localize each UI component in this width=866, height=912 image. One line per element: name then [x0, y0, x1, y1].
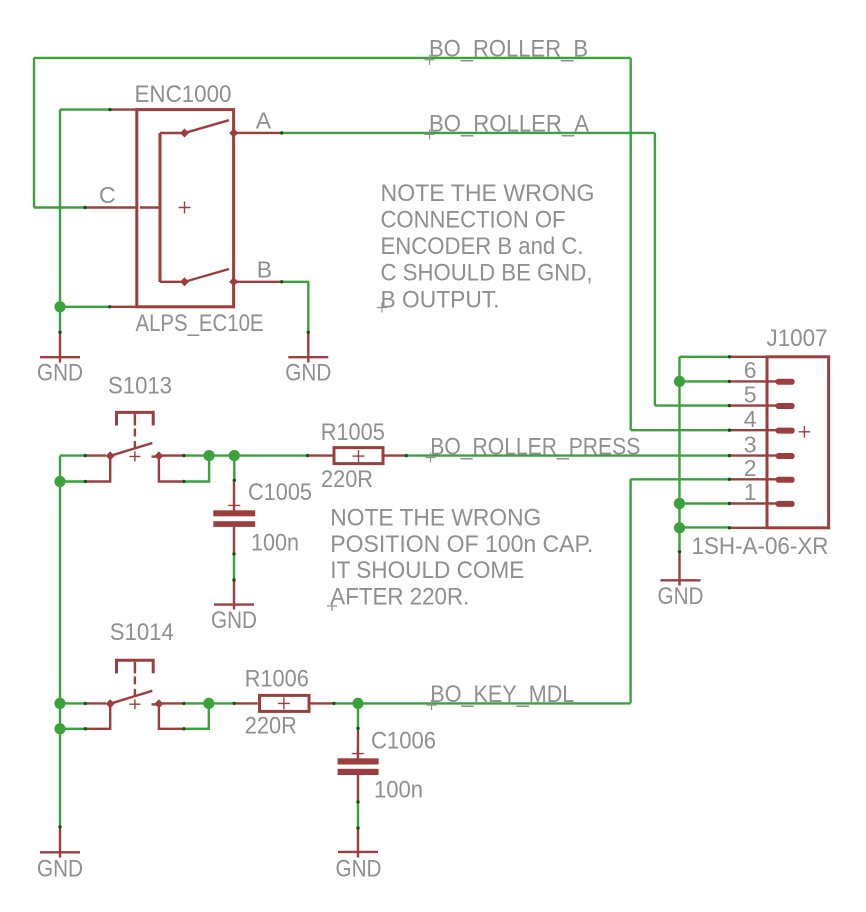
svg-text:1SH-A-06-XR: 1SH-A-06-XR [692, 533, 829, 560]
wire S1014 right to R1006 [184, 702, 234, 704]
svg-text:BO_ROLLER_A: BO_ROLLER_A [429, 110, 589, 137]
S1013 pin 3 (right) [161, 454, 184, 456]
J1007 pin 4 line [729, 429, 777, 431]
svg-text:BO_KEY_MDL: BO_KEY_MDL [430, 681, 574, 708]
svg-text:B: B [257, 257, 272, 283]
svg-text:2: 2 [744, 455, 757, 481]
svg-text:BO_ROLLER_PRESS: BO_ROLLER_PRESS [430, 434, 640, 461]
encoder pin A [234, 132, 282, 134]
GND1 bar [40, 356, 80, 358]
GND2 pin line [307, 332, 309, 362]
J1007 bottom mount pin line [729, 527, 767, 529]
net label BO_ROLLER_PRESS [426, 434, 641, 463]
J1007 top mount pin line [729, 356, 767, 358]
switch S1014 [85, 619, 184, 729]
wire encoder bottom pin [60, 306, 110, 308]
S1013 pin 1 (left) [85, 454, 106, 456]
svg-text:220R: 220R [245, 713, 297, 740]
wire S1014 lower left [60, 728, 85, 730]
wire left rail to S1013 [60, 454, 85, 456]
wire GND to pin 1 [680, 502, 730, 504]
net BO_ROLLER_A wires [282, 133, 730, 406]
R1006 origin cross [278, 697, 290, 709]
svg-text:100n: 100n [251, 529, 299, 556]
svg-text:NOTE THE WRONG: NOTE THE WRONG [381, 180, 595, 207]
S1013 left contact dot [106, 451, 115, 460]
encoder switch A wiper diagonal [184, 120, 230, 133]
net label BO_ROLLER_A [425, 110, 589, 139]
ground GND2 [285, 332, 331, 386]
junction S1014 output [203, 698, 214, 709]
GND3 bar [214, 603, 254, 605]
J1007 pin 5 line [729, 404, 777, 406]
S1013 right contact [154, 451, 163, 460]
wire GND to bottom mount pin [680, 526, 730, 528]
junction GND pin 6 [674, 376, 685, 387]
wire BO_ROLLER_B left vertical to encoder C [33, 58, 35, 208]
junction encoder GND node [54, 301, 65, 312]
J1007 pin 1 line [729, 502, 777, 504]
wire BO_ROLLER_B to J1007 pin 4 [631, 429, 730, 431]
svg-text:AFTER 220R.: AFTER 220R. [330, 584, 469, 611]
wire C1006 top [357, 703, 359, 728]
svg-text:A: A [256, 108, 272, 134]
wire S1013 lower left [60, 480, 85, 482]
svg-text:100n: 100n [374, 777, 423, 804]
J1007 pad 6 [776, 379, 795, 385]
wire GND to pin 6 [680, 380, 730, 382]
J1007 pad 4 [776, 428, 795, 434]
J1007 pad 2 [776, 477, 795, 483]
wire BO_KEY_MDL horizontal [358, 702, 631, 704]
GND4 bar [661, 579, 701, 581]
net BO_KEY_MDL wires [334, 479, 730, 703]
svg-text:GND: GND [211, 607, 257, 634]
svg-text:6: 6 [744, 357, 757, 383]
svg-text:GND: GND [285, 359, 331, 386]
S1014 origin cross [129, 699, 140, 709]
svg-text:GND: GND [37, 359, 83, 386]
encoder switch B wiper diagonal [184, 269, 230, 282]
C1006 bottom pin [357, 775, 359, 802]
junction left rail S1014 row [54, 698, 65, 709]
svg-text:POSITION OF 100n CAP.: POSITION OF 100n CAP. [330, 531, 593, 558]
svg-text:ENCODER B and C.: ENCODER B and C. [381, 233, 584, 260]
svg-text:S1013: S1013 [108, 373, 172, 400]
encoder switch A arm line [160, 132, 185, 134]
switch S1013 [85, 373, 184, 482]
wire BO_ROLLER_A vertical [654, 133, 656, 406]
encoder switch B arm line [160, 281, 185, 283]
wire S1013 right to R1005 [184, 454, 308, 456]
svg-text:ALPS_EC10E: ALPS_EC10E [136, 310, 264, 337]
net label BO_KEY_MDL [427, 681, 575, 710]
encoder switch B right contact dot [229, 277, 238, 286]
GND5 bar [40, 851, 80, 853]
junction GND pin 1 [674, 498, 685, 509]
S1013 actuator dashed line [134, 429, 136, 451]
junction S1013 lower left [54, 476, 65, 487]
encoder pin B [234, 281, 282, 283]
svg-text:GND: GND [336, 855, 382, 882]
resistor R1006 [234, 666, 334, 740]
encoder inner common line [159, 133, 162, 282]
encoder ENC1000 [85, 81, 282, 337]
S1014 bracket stem [134, 662, 136, 674]
junction left rail S1014 lower [54, 723, 65, 734]
J1007 pin 3 line [729, 454, 777, 456]
encoder switch A contact dot [180, 129, 189, 138]
svg-text:C: C [99, 182, 116, 208]
net GND of J1007 [680, 357, 730, 552]
note text block 2 [327, 505, 593, 611]
net label BO_ROLLER_B [425, 35, 588, 64]
S1013 bracket stem [134, 414, 136, 426]
R1006 right pin [310, 702, 334, 704]
R1005 body [334, 448, 383, 464]
svg-text:C1006: C1006 [371, 727, 436, 754]
S1013 pin 4 (right lower) [159, 458, 184, 482]
S1014 left contact dot [106, 699, 115, 708]
S1014 right contact stub [152, 703, 159, 705]
wire BO_KEY_MDL to J1007 pin 2 [631, 478, 730, 480]
C1005 bottom plate [213, 521, 255, 527]
wire from encoder pin A [282, 132, 655, 134]
J1007 pin 2 line [729, 478, 777, 480]
wire GND to top mount pin [680, 356, 730, 358]
svg-text:NOTE THE WRONG: NOTE THE WRONG [330, 505, 541, 532]
ground GND4 [658, 552, 704, 610]
J1007 pad 5 [776, 403, 795, 409]
C1006 top pin [357, 728, 359, 758]
J1007 pad 1 [776, 501, 795, 507]
C1005 origin cross [228, 500, 240, 512]
svg-text:ENC1000: ENC1000 [135, 81, 232, 108]
GND4 pin line [678, 552, 680, 586]
wire encoder top pin to left rail [60, 108, 110, 110]
C1005 bottom pin [233, 527, 235, 554]
encoder switch B contact dot [180, 277, 189, 286]
S1013 pin 2 (left lower) [85, 458, 110, 482]
junction GND bottom mount [674, 522, 685, 533]
S1013 origin cross [129, 451, 140, 461]
wire BO_ROLLER_B top horizontal [34, 57, 631, 59]
encoder switch A right contact dot [229, 129, 238, 138]
S1014 pin 4 (right lower) [159, 706, 184, 729]
wire R1006 to C1006 tap [334, 702, 358, 704]
svg-text:R1006: R1006 [245, 666, 309, 693]
wire BO_ROLLER_A to J1007 pin 5 [655, 404, 730, 406]
R1005 origin cross [353, 450, 365, 462]
wire left rail vertical encoder [59, 110, 61, 333]
C1005 top plate [213, 510, 255, 516]
J1007 box outline [767, 357, 829, 528]
junction S1013 output a [204, 450, 215, 461]
svg-text:GND: GND [37, 855, 83, 882]
encoder box outline [137, 110, 234, 307]
capacitor C1006 [338, 727, 436, 803]
svg-text:5: 5 [744, 381, 757, 407]
J1007 pad 3 [776, 453, 795, 459]
ground GND3 [211, 580, 257, 634]
encoder top pin [110, 108, 137, 110]
C1006 origin cross [352, 748, 364, 760]
S1014 right contact [154, 699, 163, 708]
svg-text:1: 1 [744, 479, 757, 505]
wire to encoder pin C [34, 206, 85, 208]
wire S1013 lower right return [184, 456, 209, 482]
R1005 right pin [384, 454, 406, 456]
wire encoder pin B to GND2 [282, 282, 309, 333]
net BO_ROLLER_PRESS wire [406, 454, 729, 456]
junction C1006 tap [352, 698, 363, 709]
wire GND vertical rail at connector [678, 357, 680, 552]
C1006 top plate [338, 758, 379, 764]
ground GND5 [37, 827, 83, 882]
svg-text:IT SHOULD COME: IT SHOULD COME [330, 557, 524, 584]
resistor R1005 [308, 419, 407, 493]
S1014 wiper diagonal [109, 691, 153, 704]
encoder origin cross [179, 202, 191, 214]
GND1 pin line [59, 332, 61, 362]
GND2 bar [288, 356, 328, 358]
R1005 left pin [308, 454, 333, 456]
GND5 pin line [59, 827, 61, 858]
svg-text:B OUTPUT.: B OUTPUT. [381, 286, 500, 313]
ground GND6 [336, 828, 382, 882]
svg-text:R1005: R1005 [321, 419, 385, 446]
wire C1005 to GND3 [233, 554, 235, 580]
R1006 body [260, 695, 310, 711]
connector J1007 [692, 325, 829, 560]
J1007 pin 6 line [729, 380, 777, 382]
wire C1005 top [233, 456, 235, 481]
GND6 pin line [357, 828, 359, 857]
R1006 left pin [234, 702, 258, 704]
C1006 bottom plate [338, 769, 379, 775]
wire BO_KEY_MDL vertical up [629, 479, 631, 703]
svg-text:J1007: J1007 [767, 325, 828, 352]
ground GND1 [37, 332, 83, 386]
S1013 button bracket [117, 412, 154, 425]
encoder bottom pin [110, 306, 137, 308]
svg-text:C1005: C1005 [248, 479, 312, 506]
svg-text:S1014: S1014 [110, 619, 174, 646]
svg-text:4: 4 [744, 406, 757, 432]
wire BO_ROLLER_B right vertical [630, 58, 632, 430]
junction S1013 output b (C1005 tap) [229, 450, 240, 461]
S1014 pin 2 (left lower) [85, 706, 110, 729]
svg-text:C SHOULD BE GND,: C SHOULD BE GND, [381, 260, 593, 287]
C1005 top pin [233, 480, 235, 510]
wire S1014 lower right return [184, 703, 209, 728]
GND3 pin line [233, 580, 235, 610]
encoder pin C [85, 206, 137, 208]
capacitor C1005 [213, 479, 312, 556]
svg-text:BO_ROLLER_B: BO_ROLLER_B [429, 35, 588, 62]
J1007 origin cross [799, 426, 811, 438]
svg-text:220R: 220R [321, 466, 373, 493]
S1014 pin 3 (right) [161, 702, 184, 704]
svg-text:CONNECTION OF: CONNECTION OF [381, 207, 566, 234]
S1014 pin 1 (left) [85, 702, 106, 704]
encoder pin C inner stub [140, 206, 160, 208]
svg-text:GND: GND [658, 583, 704, 610]
S1013 wiper diagonal [109, 443, 153, 456]
S1014 button bracket [117, 660, 154, 673]
GND6 bar [338, 851, 378, 853]
pin connection dots (dark green) [58, 108, 731, 830]
wire left rail vertical (S1013 to bottom GND) [59, 456, 61, 827]
net BO_ROLLER_B wires [34, 58, 729, 430]
wire left rail to S1014 [60, 702, 85, 704]
S1013 right contact stub [152, 455, 159, 457]
note text block 1 [377, 180, 595, 313]
svg-text:3: 3 [744, 431, 757, 457]
wire C1006 to GND6 [357, 802, 359, 828]
S1014 actuator dashed line [134, 676, 136, 698]
